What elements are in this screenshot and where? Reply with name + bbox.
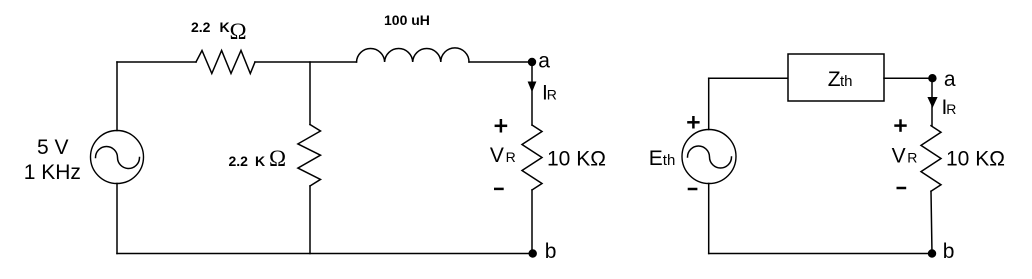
svg-text:Ω: Ω [230, 19, 247, 44]
svg-text:10 KΩ: 10 KΩ [946, 148, 1005, 171]
svg-text:K: K [220, 19, 230, 35]
wire Zth box to node a (right) [884, 77, 932, 79]
label plus sign VR (left) [495, 119, 508, 133]
svg-text:th: th [663, 152, 676, 169]
svg-text:10 KΩ: 10 KΩ [547, 148, 606, 171]
wire bottom horizontal [117, 253, 533, 255]
svg-text:b: b [545, 240, 557, 263]
resistor R1 2.2 Kohm horizontal zigzag [196, 51, 255, 74]
resistor R2 2.2 Kohm vertical zigzag [298, 125, 321, 187]
wire node a (right) down to R4 [931, 78, 933, 126]
svg-text:th: th [840, 73, 853, 90]
svg-text:5 V: 5 V [37, 136, 69, 159]
label plus sign Eth [687, 116, 699, 129]
svg-text:1 KHz: 1 KHz [24, 161, 81, 184]
label minus sign VR (right) [897, 187, 907, 190]
node a dot (left circuit) [528, 58, 536, 66]
wire inductor to node a [469, 61, 532, 63]
inductor L1 100uH [357, 48, 470, 62]
wire right circuit left vertical top [708, 78, 710, 129]
svg-text:R: R [946, 101, 956, 117]
svg-text:K: K [255, 153, 265, 169]
wire top-left horizontal (source to R1) [117, 61, 196, 63]
AC source V1 circle [91, 131, 144, 184]
svg-text:R: R [547, 86, 557, 102]
label minus sign Eth [688, 188, 698, 191]
svg-text:R: R [907, 150, 917, 166]
wire right circuit left vertical bottom [708, 184, 710, 254]
current arrow IR (left circuit) [528, 82, 537, 93]
svg-text:a: a [538, 49, 550, 72]
svg-text:2.2: 2.2 [229, 153, 249, 169]
svg-text:V: V [490, 144, 504, 167]
AC source Eth circle [682, 130, 736, 184]
node b dot (right circuit) [928, 249, 936, 257]
svg-text:Ω: Ω [269, 146, 286, 171]
wire shunt top (junction to R2) [309, 62, 311, 125]
wire R4 to node b (right) [931, 191, 932, 253]
resistor R3 10 Kohm vertical zigzag [522, 125, 542, 190]
wire shunt bottom (R2 to bottom wire) [309, 186, 311, 254]
label plus sign VR (right) [894, 119, 906, 132]
svg-text:2.2: 2.2 [191, 19, 211, 35]
wire left vertical bottom (source to corner) [116, 184, 118, 254]
label minus sign VR (left) [494, 188, 504, 191]
node b dot (left circuit) [529, 249, 537, 257]
wire right circuit top-left (corner to Zth box) [709, 77, 788, 79]
svg-text:100 uH: 100 uH [384, 12, 430, 28]
svg-text:Z: Z [828, 68, 841, 91]
svg-text:E: E [649, 147, 663, 170]
svg-text:a: a [944, 68, 956, 91]
svg-text:b: b [943, 240, 955, 263]
wire node a down to R3 [531, 62, 533, 125]
wire right circuit bottom horizontal [709, 253, 932, 255]
AC source V1 sine wave [96, 147, 140, 169]
resistor R4 10 Kohm vertical zigzag (right) [921, 126, 941, 192]
wire R1 to inductor through junction [255, 61, 357, 63]
impedance Zth box [788, 54, 884, 101]
AC source Eth sine wave [688, 146, 732, 168]
wire left vertical top (corner to source) [116, 62, 118, 131]
node a dot (right circuit) [928, 74, 936, 82]
wire R3 to node b [531, 190, 533, 254]
current arrow IR (right circuit) [927, 97, 937, 108]
svg-text:R: R [506, 149, 516, 165]
svg-text:V: V [892, 144, 906, 167]
